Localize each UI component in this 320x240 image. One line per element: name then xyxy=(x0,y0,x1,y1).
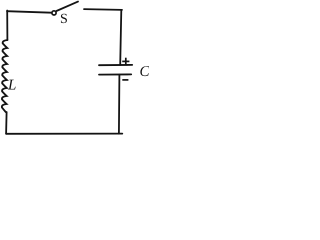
wire top-left horizontal xyxy=(7,11,51,13)
wire right vertical upper xyxy=(120,10,121,65)
minus sign (capacitor bottom polarity) xyxy=(122,79,128,81)
inductor L coil xyxy=(2,40,8,112)
wire top-right horizontal xyxy=(84,8,122,11)
wire right vertical lower xyxy=(118,75,121,134)
svg-text:C: C xyxy=(140,64,150,80)
switch S pivot circle xyxy=(52,11,56,15)
plus sign (capacitor top polarity) xyxy=(122,58,129,66)
switch S lever xyxy=(56,2,78,11)
wire left vertical lower xyxy=(5,112,8,134)
capacitor C bottom plate xyxy=(99,73,131,75)
svg-text:S: S xyxy=(60,12,68,27)
capacitor C top plate xyxy=(99,64,132,66)
wire bottom horizontal xyxy=(6,133,122,135)
svg-text:L: L xyxy=(7,78,16,94)
wire left vertical upper xyxy=(6,11,8,41)
